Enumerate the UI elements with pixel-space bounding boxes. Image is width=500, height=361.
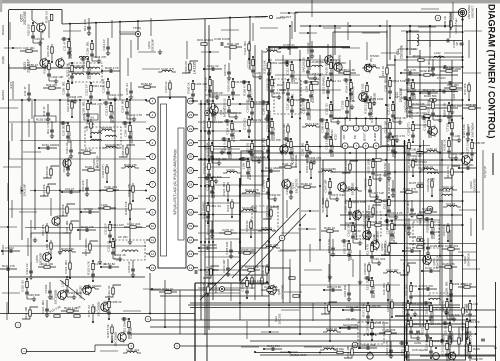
svg-text:R36 56K: R36 56K bbox=[442, 224, 446, 235]
svg-text:R160 1K: R160 1K bbox=[43, 62, 47, 73]
svg-text:C175 .01: C175 .01 bbox=[401, 344, 405, 356]
svg-text:R36 56K: R36 56K bbox=[61, 204, 65, 215]
svg-text:CF 251: CF 251 bbox=[118, 235, 128, 239]
svg-text:C180 6P: C180 6P bbox=[321, 121, 325, 132]
svg-text:CT102: CT102 bbox=[247, 59, 251, 68]
svg-text:R12 4.7K: R12 4.7K bbox=[366, 244, 370, 256]
svg-text:R206: R206 bbox=[473, 347, 480, 351]
svg-text:C105 .006: C105 .006 bbox=[264, 285, 278, 289]
svg-text:C124 .004: C124 .004 bbox=[121, 99, 125, 113]
svg-text:R171 5.6K: R171 5.6K bbox=[204, 77, 208, 91]
svg-text:R22 47K: R22 47K bbox=[291, 147, 295, 158]
svg-text:L106: L106 bbox=[472, 302, 479, 306]
svg-text:R16 15K: R16 15K bbox=[450, 331, 454, 342]
svg-text:CT102: CT102 bbox=[84, 207, 93, 211]
svg-text:R164 1K: R164 1K bbox=[226, 200, 230, 211]
svg-text:C156 22: C156 22 bbox=[223, 98, 227, 109]
svg-text:C106 .001: C106 .001 bbox=[86, 41, 90, 55]
svg-text:R111 100: R111 100 bbox=[112, 223, 124, 227]
svg-text:C105 .006: C105 .006 bbox=[214, 157, 228, 161]
svg-text:R164 1K: R164 1K bbox=[292, 70, 296, 81]
svg-text:R183 80: R183 80 bbox=[371, 220, 382, 224]
svg-text:W155 100K: W155 100K bbox=[367, 158, 371, 173]
svg-text:C102 (TT): C102 (TT) bbox=[425, 303, 429, 316]
svg-text:C110 .02: C110 .02 bbox=[432, 227, 436, 239]
svg-text:C15 .01: C15 .01 bbox=[421, 323, 425, 334]
svg-text:C15 .01: C15 .01 bbox=[383, 199, 387, 210]
svg-text:R106 4.7K: R106 4.7K bbox=[105, 66, 119, 70]
svg-text:C156 22: C156 22 bbox=[266, 120, 270, 131]
svg-text:C180 6P: C180 6P bbox=[464, 344, 468, 355]
svg-text:2SC929F: 2SC929F bbox=[150, 39, 154, 52]
svg-text:C158 0.01: C158 0.01 bbox=[265, 206, 269, 220]
svg-text:R(B)4 5.6K: R(B)4 5.6K bbox=[327, 285, 341, 289]
svg-text:R12 4.7K: R12 4.7K bbox=[83, 19, 87, 31]
svg-text:R115 5.6K: R115 5.6K bbox=[106, 324, 110, 338]
svg-text:R171 5.6K: R171 5.6K bbox=[245, 265, 259, 269]
svg-text:R122 4.7K: R122 4.7K bbox=[129, 113, 143, 117]
svg-text:C106 0.001: C106 0.001 bbox=[412, 111, 427, 115]
svg-text:12: 12 bbox=[151, 252, 155, 256]
svg-text:R160 1K: R160 1K bbox=[272, 127, 276, 138]
svg-text:2SC929E: 2SC929E bbox=[399, 87, 403, 102]
svg-text:C20 .001: C20 .001 bbox=[462, 163, 474, 167]
svg-text:R12 4.7K: R12 4.7K bbox=[404, 68, 416, 72]
svg-text:C111 .01: C111 .01 bbox=[107, 285, 111, 297]
svg-text:C158 0.01: C158 0.01 bbox=[361, 83, 365, 97]
svg-text:C11 47: C11 47 bbox=[23, 86, 27, 95]
svg-text:C156 22: C156 22 bbox=[261, 226, 272, 230]
svg-text:C175 .01: C175 .01 bbox=[262, 180, 266, 192]
svg-text:R22 47K: R22 47K bbox=[101, 126, 112, 130]
svg-text:C163 10P: C163 10P bbox=[451, 152, 464, 156]
svg-text:R(B)4 5.6K: R(B)4 5.6K bbox=[443, 103, 447, 117]
svg-text:R22 47K: R22 47K bbox=[46, 83, 57, 87]
svg-text:(9)(B): (9)(B) bbox=[1, 56, 5, 64]
svg-text:R(B)4 5.6K: R(B)4 5.6K bbox=[383, 163, 387, 177]
svg-text:C156 22: C156 22 bbox=[111, 300, 122, 304]
svg-text:D151 GMA01: D151 GMA01 bbox=[202, 201, 206, 219]
svg-text:R164 1K: R164 1K bbox=[395, 116, 406, 120]
svg-text:W155 100K: W155 100K bbox=[206, 142, 210, 157]
svg-text:C110 .02: C110 .02 bbox=[423, 119, 427, 131]
svg-text:C180 6P: C180 6P bbox=[363, 220, 367, 231]
svg-text:R104 27K: R104 27K bbox=[127, 184, 131, 197]
svg-text:R183 80: R183 80 bbox=[45, 166, 49, 177]
svg-text:R171 5.6K: R171 5.6K bbox=[66, 63, 70, 77]
svg-text:R115 5.6K: R115 5.6K bbox=[124, 201, 128, 215]
svg-text:R101: R101 bbox=[413, 54, 420, 58]
svg-text:R152 82: R152 82 bbox=[245, 220, 249, 231]
svg-text:R122 4.7K: R122 4.7K bbox=[64, 306, 78, 310]
svg-text:R111 100: R111 100 bbox=[346, 346, 350, 358]
svg-text:R22 47K: R22 47K bbox=[422, 284, 433, 288]
svg-text:C158 0.01: C158 0.01 bbox=[121, 144, 125, 158]
svg-text:R10 150: R10 150 bbox=[343, 242, 347, 253]
svg-text:C106 .001: C106 .001 bbox=[62, 81, 66, 95]
svg-text:CT102: CT102 bbox=[226, 168, 235, 172]
svg-text:C102 (TT): C102 (TT) bbox=[403, 187, 416, 191]
svg-text:C180 6P: C180 6P bbox=[370, 304, 381, 308]
svg-text:R106 4.7K: R106 4.7K bbox=[387, 180, 391, 194]
svg-text:R109 27K: R109 27K bbox=[409, 235, 422, 239]
svg-text:C102 (TT): C102 (TT) bbox=[101, 164, 105, 177]
svg-text:R36 56K: R36 56K bbox=[282, 81, 286, 92]
svg-text:C20 .001: C20 .001 bbox=[23, 46, 35, 50]
svg-text:R104 27K: R104 27K bbox=[90, 102, 103, 106]
svg-text:C203: C203 bbox=[414, 341, 421, 345]
svg-text:C180 6P: C180 6P bbox=[212, 91, 223, 95]
svg-text:10: 10 bbox=[151, 224, 155, 228]
svg-text:R122 4.7K: R122 4.7K bbox=[110, 93, 124, 97]
svg-text:R164 1K: R164 1K bbox=[115, 253, 126, 257]
svg-text:C175 .01: C175 .01 bbox=[207, 102, 211, 114]
svg-text:C156 22: C156 22 bbox=[425, 339, 429, 350]
svg-text:R160 1K: R160 1K bbox=[301, 182, 312, 186]
svg-text:GMA01: GMA01 bbox=[1, 25, 5, 36]
svg-text:C11 47: C11 47 bbox=[461, 321, 465, 330]
svg-text:C117 11P: C117 11P bbox=[386, 268, 398, 272]
svg-text:C150 0.045: C150 0.045 bbox=[214, 37, 230, 41]
svg-text:SA(C)01(B): SA(C)01(B) bbox=[321, 167, 336, 171]
svg-text:R106 4.7K: R106 4.7K bbox=[402, 262, 406, 276]
svg-text:C105 .006: C105 .006 bbox=[333, 61, 347, 65]
svg-text:GMA01: GMA01 bbox=[1, 90, 5, 101]
svg-text:R10 150: R10 150 bbox=[451, 104, 462, 108]
svg-text:R122 4.7K: R122 4.7K bbox=[206, 221, 210, 235]
svg-text:R164 1K: R164 1K bbox=[345, 81, 349, 92]
svg-text:R205: R205 bbox=[460, 334, 464, 341]
svg-text:C111 .01: C111 .01 bbox=[282, 162, 294, 166]
svg-text:DIAGRAM (TUNER / CONTROL): DIAGRAM (TUNER / CONTROL) bbox=[487, 4, 497, 139]
svg-text:R155 100K: R155 100K bbox=[36, 118, 51, 122]
svg-text:C158 0.01: C158 0.01 bbox=[241, 278, 245, 292]
svg-text:C102 (TT): C102 (TT) bbox=[407, 122, 411, 135]
svg-text:C15 .01: C15 .01 bbox=[466, 103, 477, 107]
svg-text:C113 1P: C113 1P bbox=[105, 104, 109, 115]
svg-text:GMA01: GMA01 bbox=[1, 245, 5, 256]
svg-text:C158 0.01: C158 0.01 bbox=[410, 105, 414, 119]
svg-text:C102 (TT): C102 (TT) bbox=[302, 100, 306, 113]
svg-text:C15 .01: C15 .01 bbox=[35, 37, 46, 41]
svg-text:C163 10P: C163 10P bbox=[346, 305, 359, 309]
svg-text:CT102: CT102 bbox=[446, 122, 450, 131]
svg-text:R12 4.7K: R12 4.7K bbox=[423, 88, 435, 92]
svg-text:R171 5.6K: R171 5.6K bbox=[447, 348, 451, 361]
svg-text:R122 4.7K: R122 4.7K bbox=[385, 341, 389, 355]
svg-text:C180 6P: C180 6P bbox=[261, 265, 265, 276]
svg-text:R160 1K: R160 1K bbox=[324, 226, 335, 230]
svg-text:SOCKET: SOCKET bbox=[470, 6, 474, 19]
svg-text:C163 10P: C163 10P bbox=[324, 180, 328, 193]
svg-text:C156 22: C156 22 bbox=[27, 63, 38, 67]
svg-text:(B): (B) bbox=[369, 58, 373, 62]
svg-text:C106 .001: C106 .001 bbox=[65, 220, 69, 234]
svg-text:C175 .01: C175 .01 bbox=[87, 305, 91, 317]
svg-text:R22 47K: R22 47K bbox=[469, 320, 480, 324]
svg-text:C105 .006: C105 .006 bbox=[384, 78, 388, 92]
svg-text:SA(C)01(B): SA(C)01(B) bbox=[105, 143, 120, 147]
svg-text:C106 .001: C106 .001 bbox=[445, 281, 449, 295]
svg-text:R104 27K: R104 27K bbox=[309, 156, 322, 160]
svg-text:16: 16 bbox=[189, 210, 193, 214]
svg-text:R103 56K: R103 56K bbox=[424, 94, 437, 98]
svg-text:CT101: CT101 bbox=[437, 76, 446, 80]
svg-text:R152 82: R152 82 bbox=[213, 109, 217, 120]
svg-text:C175 .01: C175 .01 bbox=[403, 141, 407, 153]
svg-text:C163 10P: C163 10P bbox=[282, 124, 286, 137]
svg-text:R171 5.6K: R171 5.6K bbox=[362, 303, 366, 317]
svg-text:IN GND: IN GND bbox=[375, 133, 377, 141]
svg-text:23: 23 bbox=[189, 113, 193, 117]
svg-text:C117 11P: C117 11P bbox=[372, 191, 384, 195]
svg-text:R22 47K: R22 47K bbox=[81, 180, 85, 191]
svg-text:R183 80: R183 80 bbox=[227, 80, 231, 91]
svg-text:R115 5.6K: R115 5.6K bbox=[69, 291, 83, 295]
svg-text:SA(C)01(B): SA(C)01(B) bbox=[242, 206, 257, 210]
svg-text:R164 1K: R164 1K bbox=[305, 161, 309, 172]
svg-text:18: 18 bbox=[189, 183, 193, 187]
svg-text:R164 1K: R164 1K bbox=[326, 327, 337, 331]
svg-text:C180 6P: C180 6P bbox=[474, 141, 485, 145]
svg-text:C110 .02: C110 .02 bbox=[441, 300, 445, 312]
svg-text:R183 80: R183 80 bbox=[82, 60, 86, 71]
svg-text:W155 100K: W155 100K bbox=[241, 248, 256, 252]
svg-text:C(T)(T)P: C(T)(T)P bbox=[483, 166, 487, 178]
svg-text:C20 .001: C20 .001 bbox=[374, 257, 386, 261]
svg-text:CT102: CT102 bbox=[44, 284, 48, 293]
svg-text:R115 5.6K: R115 5.6K bbox=[364, 100, 368, 114]
svg-text:R12 4.7K: R12 4.7K bbox=[429, 322, 441, 326]
svg-text:W155 100K: W155 100K bbox=[374, 321, 389, 325]
svg-text:C124 .004: C124 .004 bbox=[41, 300, 45, 314]
svg-text:R16 15K: R16 15K bbox=[42, 184, 46, 195]
svg-text:C11 47: C11 47 bbox=[63, 41, 67, 50]
svg-text:R10 150: R10 150 bbox=[27, 24, 31, 35]
svg-text:D151 GMA01: D151 GMA01 bbox=[84, 284, 102, 288]
svg-text:R109 27K: R109 27K bbox=[426, 179, 430, 192]
svg-text:R109 27K: R109 27K bbox=[266, 78, 270, 91]
svg-text:2SA270E: 2SA270E bbox=[472, 179, 476, 192]
svg-text:C15 .01: C15 .01 bbox=[366, 280, 370, 291]
svg-text:C15 .01: C15 .01 bbox=[246, 143, 250, 154]
svg-text:SA(C)01(B): SA(C)01(B) bbox=[202, 243, 217, 247]
svg-text:R107 4.7K: R107 4.7K bbox=[409, 181, 423, 185]
svg-text:R12 4.7K: R12 4.7K bbox=[46, 122, 50, 134]
svg-text:CT102: CT102 bbox=[418, 160, 427, 164]
svg-text:C163 10P: C163 10P bbox=[441, 342, 445, 355]
svg-text:R(B)4 5.6K: R(B)4 5.6K bbox=[327, 239, 331, 253]
svg-text:C110 .02: C110 .02 bbox=[207, 64, 219, 68]
svg-text:ANT m: ANT m bbox=[276, 16, 286, 20]
svg-text:19: 19 bbox=[189, 169, 193, 173]
svg-text:(B)(B)1 GMA: (B)(B)1 GMA bbox=[290, 353, 307, 357]
svg-text:C113 1P: C113 1P bbox=[25, 263, 29, 274]
svg-text:43K: 43K bbox=[355, 134, 357, 139]
svg-text:C156 22: C156 22 bbox=[426, 147, 437, 151]
svg-text:2SC929E: 2SC929E bbox=[399, 45, 403, 59]
svg-text:R10 150: R10 150 bbox=[229, 147, 233, 158]
svg-text:C111 .01: C111 .01 bbox=[129, 327, 133, 339]
svg-text:R160 1K: R160 1K bbox=[231, 111, 242, 115]
svg-text:13: 13 bbox=[151, 266, 155, 270]
svg-text:W155 100K: W155 100K bbox=[249, 279, 264, 283]
svg-text:R171 5.6K: R171 5.6K bbox=[466, 140, 470, 154]
svg-text:C102 (TT): C102 (TT) bbox=[425, 266, 438, 270]
svg-text:C106 .001: C106 .001 bbox=[104, 185, 118, 189]
svg-text:C117 11P: C117 11P bbox=[88, 67, 92, 79]
svg-text:C111 .01: C111 .01 bbox=[65, 142, 69, 154]
svg-text:R12 4.7K: R12 4.7K bbox=[391, 211, 403, 215]
svg-text:C117 11P: C117 11P bbox=[384, 121, 388, 133]
svg-text:R160 1K: R160 1K bbox=[187, 82, 191, 93]
svg-text:R111 100: R111 100 bbox=[24, 307, 28, 319]
svg-text:C15 .01: C15 .01 bbox=[413, 89, 417, 100]
svg-text:L106: L106 bbox=[45, 243, 49, 250]
svg-text:C113 1P: C113 1P bbox=[203, 120, 207, 131]
svg-text:C163 10P: C163 10P bbox=[222, 260, 226, 273]
svg-text:CF 201: CF 201 bbox=[346, 317, 356, 321]
svg-text:L106: L106 bbox=[349, 99, 356, 103]
svg-text:CT102: CT102 bbox=[290, 81, 299, 85]
svg-text:L106: L106 bbox=[242, 162, 246, 169]
svg-text:R22 47K: R22 47K bbox=[69, 47, 73, 58]
svg-text:R22 47K: R22 47K bbox=[422, 239, 426, 250]
svg-text:D151 GMA01: D151 GMA01 bbox=[370, 105, 374, 123]
svg-text:R115 5.6K: R115 5.6K bbox=[263, 60, 267, 74]
svg-text:3P: 3P bbox=[455, 42, 459, 46]
svg-text:C11 47: C11 47 bbox=[65, 187, 74, 191]
svg-text:C158 0.01: C158 0.01 bbox=[344, 160, 348, 174]
svg-text:2SC930E: 2SC930E bbox=[23, 11, 27, 25]
svg-text:C158 0.01: C158 0.01 bbox=[225, 241, 229, 255]
svg-text:L101 4.5μH: L101 4.5μH bbox=[454, 18, 458, 33]
svg-text:R115 5.6K: R115 5.6K bbox=[61, 247, 75, 251]
svg-text:20: 20 bbox=[189, 155, 193, 159]
svg-text:C20 .001: C20 .001 bbox=[444, 324, 448, 336]
svg-text:R106 4.7K: R106 4.7K bbox=[85, 165, 99, 169]
svg-text:R111 100: R111 100 bbox=[41, 262, 53, 266]
svg-text:TP(S): TP(S) bbox=[133, 26, 141, 30]
svg-text:R(B)4 5.6K: R(B)4 5.6K bbox=[352, 200, 366, 204]
svg-text:IC10: IC10 bbox=[334, 133, 338, 140]
svg-text:R111 100: R111 100 bbox=[227, 42, 239, 46]
svg-text:R183 80: R183 80 bbox=[386, 300, 390, 311]
svg-text:C102 (TT): C102 (TT) bbox=[161, 67, 174, 71]
svg-text:C175 .01: C175 .01 bbox=[222, 228, 234, 232]
svg-text:C110 .02: C110 .02 bbox=[203, 162, 207, 174]
svg-text:W155 100K: W155 100K bbox=[325, 59, 329, 74]
svg-text:R164 1K: R164 1K bbox=[162, 287, 173, 291]
svg-text:R16 15K: R16 15K bbox=[463, 83, 467, 94]
svg-text:13: 13 bbox=[189, 252, 193, 256]
svg-text:C106 .001: C106 .001 bbox=[126, 348, 140, 352]
svg-text:C11 47: C11 47 bbox=[446, 202, 455, 206]
svg-text:2SC302(B): 2SC302(B) bbox=[53, 290, 57, 305]
svg-text:R115 5.6K: R115 5.6K bbox=[248, 166, 252, 180]
svg-text:R104 27K: R104 27K bbox=[70, 95, 83, 99]
svg-text:D151 GMA01: D151 GMA01 bbox=[42, 143, 60, 147]
svg-text:C124 .004: C124 .004 bbox=[243, 41, 247, 55]
svg-text:D151 GMA01: D151 GMA01 bbox=[265, 166, 283, 170]
svg-text:R152 82: R152 82 bbox=[407, 351, 411, 361]
svg-text:C111 .01: C111 .01 bbox=[286, 63, 290, 75]
svg-text:C20 .001: C20 .001 bbox=[382, 283, 386, 295]
svg-text:2SC302(B): 2SC302(B) bbox=[96, 302, 100, 317]
svg-text:R160 1K: R160 1K bbox=[323, 302, 327, 313]
svg-text:R115 5.6K: R115 5.6K bbox=[462, 124, 466, 138]
svg-text:R12 4.7K: R12 4.7K bbox=[372, 286, 376, 298]
svg-text:15: 15 bbox=[189, 224, 193, 228]
svg-text:(W) ANT: (W) ANT bbox=[255, 15, 267, 19]
svg-text:R16 15K: R16 15K bbox=[46, 45, 50, 56]
svg-text:C113 1P: C113 1P bbox=[323, 345, 334, 349]
svg-text:C156 22: C156 22 bbox=[164, 81, 168, 92]
svg-text:R10 150: R10 150 bbox=[407, 81, 411, 92]
svg-text:ADC: ADC bbox=[343, 134, 346, 139]
svg-text:D151 GMA01: D151 GMA01 bbox=[197, 38, 214, 42]
svg-text:R111 100: R111 100 bbox=[212, 186, 216, 198]
svg-text:R171 5.6K: R171 5.6K bbox=[305, 122, 319, 126]
svg-text:+: + bbox=[23, 349, 25, 353]
svg-text:24: 24 bbox=[189, 99, 193, 103]
svg-text:C113 1P: C113 1P bbox=[461, 282, 472, 286]
svg-text:MT20C: MT20C bbox=[370, 54, 379, 58]
svg-text:C117 11P: C117 11P bbox=[62, 160, 66, 172]
svg-text:L106: L106 bbox=[454, 134, 461, 138]
svg-text:L106: L106 bbox=[101, 203, 108, 207]
svg-text:C11 47: C11 47 bbox=[85, 121, 89, 130]
svg-text:R12 4.7K: R12 4.7K bbox=[254, 155, 266, 159]
svg-text:R16 15K: R16 15K bbox=[270, 138, 281, 142]
svg-text:R152 82: R152 82 bbox=[270, 193, 281, 197]
svg-text:C124 .004: C124 .004 bbox=[362, 343, 376, 347]
svg-text:R(B)4 5.6K: R(B)4 5.6K bbox=[405, 318, 409, 332]
svg-text:R152 82: R152 82 bbox=[251, 118, 262, 122]
svg-text:D151 GMA01: D151 GMA01 bbox=[84, 238, 88, 256]
svg-text:L106: L106 bbox=[61, 280, 65, 287]
svg-text:C110 .02: C110 .02 bbox=[21, 280, 25, 292]
svg-text:C15 .01: C15 .01 bbox=[423, 165, 434, 169]
svg-text:R22 47K: R22 47K bbox=[41, 224, 45, 235]
svg-text:R109 27K: R109 27K bbox=[426, 220, 430, 233]
svg-text:C111 .01: C111 .01 bbox=[210, 204, 222, 208]
svg-text:R111 100: R111 100 bbox=[331, 145, 335, 157]
svg-text:C20 .001: C20 .001 bbox=[262, 138, 266, 150]
svg-text:C175 .01: C175 .01 bbox=[283, 43, 295, 47]
svg-text:R171 5.6K: R171 5.6K bbox=[332, 193, 346, 197]
svg-text:R152 82: R152 82 bbox=[104, 262, 115, 266]
svg-text:R106 4.7K: R106 4.7K bbox=[243, 82, 247, 96]
svg-text:R104 27K: R104 27K bbox=[2, 264, 15, 268]
svg-text:R(B)4 5.6K: R(B)4 5.6K bbox=[341, 68, 355, 72]
svg-text:R106 4.7K: R106 4.7K bbox=[392, 228, 396, 242]
svg-text:R36 56K: R36 56K bbox=[333, 116, 344, 120]
svg-text:17: 17 bbox=[189, 196, 193, 200]
svg-text:W155 100K: W155 100K bbox=[321, 197, 325, 212]
svg-text:L102: L102 bbox=[434, 51, 441, 55]
svg-text:C113 1P: C113 1P bbox=[206, 179, 210, 190]
svg-text:R111 100: R111 100 bbox=[111, 111, 115, 123]
svg-text:C124 .004: C124 .004 bbox=[127, 222, 141, 226]
svg-text:R16 15K: R16 15K bbox=[405, 284, 409, 295]
svg-text:R106 4.7K: R106 4.7K bbox=[410, 302, 424, 306]
svg-text:14: 14 bbox=[189, 238, 193, 242]
svg-text:R160 1K: R160 1K bbox=[443, 139, 447, 150]
svg-text:C158 0.01: C158 0.01 bbox=[366, 320, 370, 334]
svg-text:SA(C)01(B): SA(C)01(B) bbox=[343, 323, 358, 327]
svg-text:R16 15K: R16 15K bbox=[68, 131, 72, 142]
